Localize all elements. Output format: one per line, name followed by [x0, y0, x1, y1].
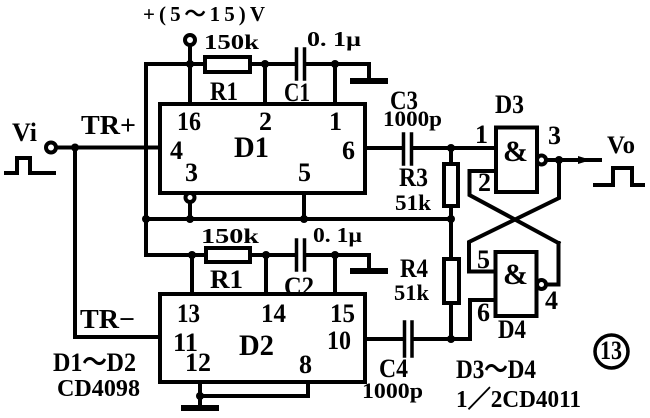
- node pin15: [331, 251, 339, 259]
- wire pin10 out: [365, 337, 403, 341]
- wire C3 to D3: [414, 146, 496, 150]
- D4 output bubble: [537, 280, 546, 289]
- wire top rail: [146, 64, 369, 77]
- resistor R1 (top): [205, 57, 250, 72]
- wire pin14: [264, 255, 268, 294]
- svg-text:4: 4: [170, 136, 183, 165]
- ground (row2 right): [353, 268, 385, 274]
- arrow to Vo: [578, 156, 591, 164]
- label Vo: [607, 132, 635, 159]
- node Vi junction: [71, 144, 79, 152]
- wire D4 output feedback: [546, 243, 559, 285]
- svg-text:1: 1: [329, 107, 342, 136]
- label D4: [498, 315, 526, 344]
- svg-text:5: 5: [298, 158, 311, 187]
- pin 6 label (D4): [477, 298, 490, 327]
- svg-text:D3～D4: D3～D4: [456, 355, 536, 384]
- svg-text:8: 8: [299, 350, 312, 379]
- ground (top right): [353, 78, 385, 84]
- wire row2 rail: [146, 255, 369, 267]
- label 1/2CD4011: [456, 386, 581, 413]
- input pulse icon: [6, 158, 54, 173]
- node C3-R3: [447, 144, 455, 152]
- label R3: [399, 163, 428, 192]
- resistor R1 (lower): [206, 248, 250, 262]
- svg-text:14: 14: [261, 299, 286, 328]
- svg-text:1: 1: [475, 120, 488, 149]
- label CD4098: [57, 376, 140, 402]
- pin 6: [342, 136, 355, 165]
- wire pin13: [190, 255, 194, 294]
- node pin5-rail: [300, 215, 308, 223]
- resistor R4: [449, 219, 453, 259]
- capacitor C4: [405, 322, 413, 356]
- label D1: [234, 131, 269, 164]
- label C2: [284, 272, 314, 301]
- gate D4: [496, 252, 537, 316]
- svg-text:3: 3: [185, 158, 198, 187]
- label R1 (lower): [210, 265, 243, 294]
- value 150k: [204, 30, 259, 54]
- node VDD junction: [186, 60, 194, 68]
- wire TR+: [57, 146, 161, 150]
- pin 1 label (D3): [475, 120, 488, 149]
- svg-text:D2: D2: [239, 329, 274, 362]
- pin 14: [261, 299, 286, 328]
- value 1000p (C4): [362, 378, 423, 403]
- svg-text:12: 12: [185, 348, 211, 377]
- capacitor C2: [297, 240, 305, 270]
- capacitor C1: [297, 49, 305, 79]
- svg-text:R4: R4: [400, 254, 428, 283]
- capacitor C3: [404, 134, 412, 164]
- input Vi: [12, 118, 37, 147]
- resistor R3: [449, 148, 453, 164]
- svg-text:51k: 51k: [395, 190, 432, 215]
- pin 5 label (D4): [477, 245, 490, 274]
- svg-text:R1: R1: [210, 77, 238, 106]
- svg-text:CD4098: CD4098: [57, 376, 140, 402]
- svg-text:&: &: [503, 258, 528, 291]
- svg-text:1／2CD4011: 1／2CD4011: [456, 386, 581, 413]
- svg-text:150k: 150k: [204, 30, 259, 54]
- svg-text:16: 16: [177, 107, 201, 136]
- wire pin5 down: [302, 193, 306, 219]
- output pulse icon: [595, 168, 643, 185]
- svg-text:D1: D1: [234, 131, 269, 164]
- label R1: [210, 77, 238, 106]
- wire pin16: [188, 64, 192, 104]
- pin 1: [329, 107, 342, 136]
- svg-text:5: 5: [477, 245, 490, 274]
- node pin13: [188, 251, 196, 259]
- node C1 right: [331, 60, 339, 68]
- svg-text:13: 13: [177, 299, 200, 328]
- pin 2: [259, 107, 272, 136]
- pin 10: [327, 326, 351, 355]
- label D1~D2: [53, 348, 136, 377]
- wire pin6 out: [365, 146, 403, 150]
- wire pin1: [333, 64, 337, 104]
- pin 13: [177, 299, 200, 328]
- svg-text:15: 15: [330, 299, 355, 328]
- svg-text:+(5～15)V: +(5～15)V: [143, 2, 265, 26]
- svg-text:3: 3: [548, 121, 561, 150]
- wire D3 pin2 feedback: [470, 171, 559, 243]
- node pin14: [262, 251, 270, 259]
- svg-text:TR+: TR+: [81, 110, 136, 140]
- pin 2 label (D3): [478, 168, 491, 197]
- pin 12: [185, 348, 211, 377]
- svg-text:D4: D4: [498, 315, 526, 344]
- label C1: [284, 78, 310, 107]
- node C4-R4: [447, 335, 455, 343]
- svg-text:D3: D3: [495, 90, 524, 119]
- svg-text:D1～D2: D1～D2: [53, 348, 136, 377]
- svg-text:R3: R3: [399, 163, 428, 192]
- wire pin15: [333, 255, 337, 294]
- node pin3-rail: [186, 215, 194, 223]
- node R3-R4: [447, 215, 455, 223]
- svg-text:Vi: Vi: [12, 118, 37, 147]
- svg-text:6: 6: [477, 298, 490, 327]
- wire pin3 down: [188, 202, 192, 219]
- label C4: [379, 354, 408, 383]
- pin 5: [298, 158, 311, 187]
- svg-text:1000p: 1000p: [362, 378, 423, 403]
- node D3 out: [555, 156, 563, 164]
- pin 3 label (D3): [548, 121, 561, 150]
- value 51k: [395, 190, 432, 215]
- svg-text:TR−: TR−: [80, 304, 135, 334]
- terminal Vi: [46, 143, 56, 153]
- wire C4 to D4 pin6: [414, 300, 495, 339]
- svg-text:0. 1µ: 0. 1µ: [313, 223, 362, 247]
- svg-text:4: 4: [545, 286, 558, 315]
- IC D2 (monostable): [160, 294, 365, 382]
- svg-text:51k: 51k: [394, 280, 430, 305]
- node mid-bus: [142, 215, 150, 223]
- pin 3: [185, 158, 198, 187]
- svg-text:1000p: 1000p: [383, 106, 442, 131]
- supply terminal: [185, 35, 195, 62]
- pin 11: [173, 328, 198, 357]
- ground (below D2): [198, 396, 202, 405]
- svg-text:10: 10: [327, 326, 351, 355]
- pin 8: [299, 350, 312, 379]
- wire D3 output: [546, 158, 600, 162]
- value 0.1u: [307, 27, 361, 51]
- D3 output bubble: [537, 156, 546, 165]
- label R4: [400, 254, 428, 283]
- node R1-C1: [261, 60, 269, 68]
- value 0.1u (lower): [313, 223, 362, 247]
- gate D3: [496, 128, 537, 193]
- value 150k (lower): [201, 224, 259, 248]
- wire Vi down to TR-: [75, 148, 160, 338]
- wire left bus: [144, 64, 148, 255]
- label TR-: [80, 304, 135, 334]
- pin 15: [330, 299, 355, 328]
- pin 4 label (D4): [545, 286, 558, 315]
- value 51k (R4): [394, 280, 430, 305]
- label C3: [390, 86, 418, 115]
- label D3~D4: [456, 355, 536, 384]
- svg-text:13: 13: [600, 336, 622, 365]
- pin 16: [177, 107, 201, 136]
- wire pin2: [263, 64, 267, 104]
- supply label +(5~15)V: [143, 2, 265, 26]
- node pin12: [196, 392, 204, 400]
- svg-text:6: 6: [342, 136, 355, 165]
- value 1000p (C3): [383, 106, 442, 131]
- wire mid rail: [146, 217, 451, 221]
- label D2: [239, 329, 274, 362]
- pin 3 bubble: [186, 193, 195, 202]
- svg-text:0. 1µ: 0. 1µ: [307, 27, 361, 51]
- svg-text:R1: R1: [210, 265, 243, 294]
- wire pins 12-8 strap: [200, 382, 308, 396]
- svg-text:Vo: Vo: [607, 132, 635, 159]
- label TR+: [81, 110, 136, 140]
- svg-text:150k: 150k: [201, 224, 259, 248]
- IC D1 (monostable): [160, 104, 365, 193]
- label D3: [495, 90, 524, 119]
- figure number 13: [595, 335, 628, 368]
- svg-text:&: &: [503, 135, 528, 168]
- wire D3 out to D4 pin5: [469, 160, 559, 272]
- pin 4: [170, 136, 183, 165]
